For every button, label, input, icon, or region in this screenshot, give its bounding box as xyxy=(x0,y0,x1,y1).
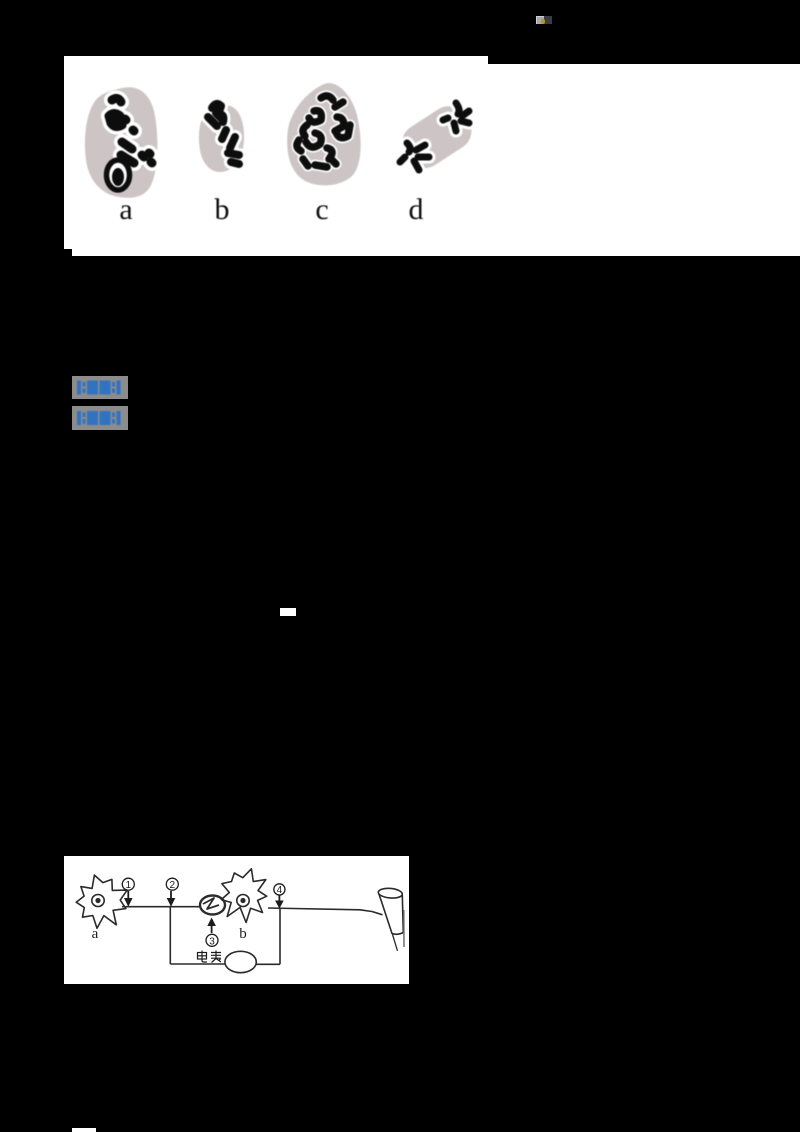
cell a chromosomes xyxy=(109,98,152,163)
marker 3 arrow (up) xyxy=(211,925,213,933)
small two-tone icon xyxy=(536,16,544,24)
cell a polar body core xyxy=(112,168,124,186)
svg-text:a: a xyxy=(92,926,99,942)
wire: drop from node 4 xyxy=(279,909,281,965)
cell d top-right aster halo xyxy=(443,103,469,131)
marker 1 arrow xyxy=(127,891,129,899)
marker 2 arrow xyxy=(170,891,172,899)
bottom small white rect xyxy=(72,1128,96,1132)
icon yellow dot xyxy=(541,19,545,24)
figure 1 white background (right extension) xyxy=(488,64,800,256)
cell d body xyxy=(395,99,479,175)
meter body xyxy=(225,951,256,972)
wire: axon b to electrode xyxy=(268,908,383,915)
electrode opening xyxy=(378,887,403,899)
svg-text:1: 1 xyxy=(126,880,132,891)
svg-text:c: c xyxy=(315,193,328,226)
wire: meter right lead xyxy=(256,963,280,965)
marker 1 circle xyxy=(122,878,134,890)
cells figure SVG xyxy=(64,56,488,256)
synapse zigzag xyxy=(203,898,219,909)
marker 4 circle xyxy=(274,884,285,895)
cell c chromosome halo xyxy=(297,96,350,167)
cell b chromosome halo xyxy=(208,104,239,164)
cell b chromosomes xyxy=(208,104,239,164)
figure background xyxy=(64,856,409,984)
svg-text:a: a xyxy=(119,193,132,226)
right edge line xyxy=(403,910,405,947)
neuron b nucleus xyxy=(237,895,249,907)
cell c body xyxy=(287,83,361,185)
figure 1 white background (cells panel, left part) xyxy=(64,56,488,256)
electrode body xyxy=(379,893,404,935)
wire: axon a xyxy=(122,906,200,908)
cell a polar body ring xyxy=(107,160,130,190)
svg-text:b: b xyxy=(239,926,247,942)
answer tag box 2 xyxy=(72,406,128,430)
cell d bottom-left aster xyxy=(400,143,429,170)
cell d top-right aster xyxy=(443,103,469,131)
svg-text:b: b xyxy=(215,193,230,226)
wire: drop from node 2 xyxy=(169,907,171,964)
cell d bottom-left aster halo xyxy=(400,143,429,170)
svg-text:3: 3 xyxy=(209,936,215,947)
cell a chromosome halo xyxy=(109,98,152,163)
synapse bulb xyxy=(200,896,225,915)
neuron b body xyxy=(221,869,266,923)
figure 1 bottom-left black notch xyxy=(64,249,72,256)
marker 4 arrow xyxy=(278,896,280,902)
answer tag box 1 blue text blob xyxy=(72,376,128,399)
cell a body xyxy=(85,87,158,198)
cell b body xyxy=(199,105,244,172)
answer tag box 1 xyxy=(72,376,128,399)
cell c chromosomes xyxy=(297,96,350,167)
neuron circuit figure xyxy=(64,856,409,984)
text: dianbiao (meter) glyphs xyxy=(198,951,222,963)
wire: meter left lead xyxy=(170,963,225,965)
svg-text:2: 2 xyxy=(170,880,176,891)
marker 2 circle xyxy=(166,878,178,890)
marker 3 circle xyxy=(206,934,218,946)
svg-text:4: 4 xyxy=(277,885,283,896)
neuron a nucleus xyxy=(92,895,104,907)
small white rect (mid page) xyxy=(280,608,296,616)
electrode tip line xyxy=(393,935,398,951)
neuron a body xyxy=(76,875,127,928)
svg-text:d: d xyxy=(409,193,424,226)
answer tag box 2 blue text blob xyxy=(72,406,128,430)
